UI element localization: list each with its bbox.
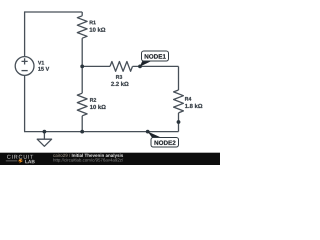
footer logo LAB: [25, 160, 34, 163]
junction node at NODE1 attach: [138, 65, 142, 69]
V1 minus sign: [22, 70, 28, 72]
value R2 10 kOhm: [90, 105, 106, 109]
wire top horizontal: [25, 11, 83, 13]
wire right vertical upper (R4 top lead): [178, 66, 180, 90]
label R4: [185, 97, 191, 101]
footer logo line: [6, 160, 17, 162]
wire R4 bottom lead: [178, 113, 180, 122]
label V1: [38, 61, 44, 65]
footer logo bolt: [18, 159, 23, 163]
footer logo CIRCUIT: [7, 155, 33, 159]
ground stub: [43, 132, 45, 140]
wire R2 top lead: [81, 66, 83, 93]
value R4 1.8 kOhm: [185, 104, 202, 108]
wire R1 bottom lead: [81, 38, 83, 66]
junction node at ground: [43, 130, 47, 134]
ground symbol: [37, 139, 51, 146]
junction node at R4 bottom terminal: [177, 120, 181, 124]
junction node at R1/R2/R3: [80, 65, 84, 69]
footer title user: [53, 154, 70, 157]
node flag NODE1 wedge: [140, 61, 152, 67]
wire R1 top lead: [81, 12, 83, 16]
node flag NODE1 box: [142, 51, 169, 61]
voltage source V1: [15, 57, 34, 76]
footer url: [53, 158, 123, 162]
value V1 15 V: [38, 67, 49, 71]
node flag NODE2 text: [154, 141, 175, 145]
resistor R4: [174, 90, 184, 113]
wire right vertical lower: [178, 122, 180, 132]
resistor R1: [77, 16, 87, 38]
node flag NODE2 box: [151, 138, 179, 148]
wire R2 bottom lead: [81, 116, 83, 132]
resistor R2: [77, 93, 87, 116]
label R1: [90, 21, 96, 25]
wire left upper vertical: [24, 11, 26, 56]
V1 plus sign: [22, 58, 28, 64]
resistor R3: [110, 62, 133, 72]
footer title name: [72, 154, 123, 158]
wire left lower vertical: [24, 75, 26, 131]
value R3 2.2 kOhm: [111, 82, 128, 86]
node flag NODE1 text: [145, 54, 166, 58]
node flag NODE2 wedge: [148, 132, 161, 138]
junction node at NODE2 attach: [146, 130, 150, 134]
junction node at R2 bottom: [80, 130, 84, 134]
wire middle right (R3 to right corner): [133, 65, 179, 67]
value R1 10 kOhm: [90, 27, 106, 31]
label R3: [116, 75, 122, 79]
wire bottom horizontal: [24, 131, 179, 133]
wire middle left (junction to R3): [82, 65, 110, 67]
label R2: [90, 98, 96, 102]
footer bar: [0, 153, 220, 165]
